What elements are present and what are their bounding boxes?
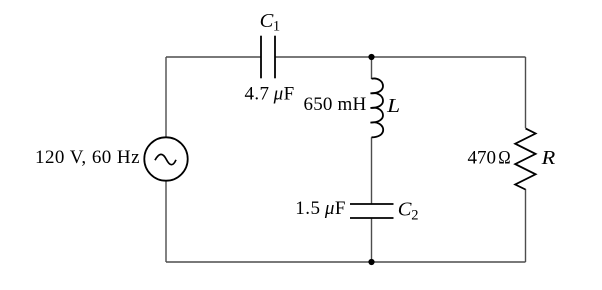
svg-text:Ω: Ω bbox=[498, 148, 510, 169]
svg-text:1.5 μF: 1.5 μF bbox=[295, 198, 346, 219]
svg-text:470: 470 bbox=[468, 148, 497, 169]
svg-text:C: C bbox=[398, 199, 412, 221]
svg-text:120 V, 60 Hz: 120 V, 60 Hz bbox=[35, 147, 140, 168]
svg-text:1: 1 bbox=[273, 19, 280, 35]
svg-text:L: L bbox=[386, 95, 400, 117]
svg-text:2: 2 bbox=[411, 208, 418, 224]
svg-text:R: R bbox=[540, 147, 555, 169]
svg-text:4.7 μF: 4.7 μF bbox=[245, 84, 295, 105]
svg-text:650 mH: 650 mH bbox=[304, 94, 367, 115]
svg-text:C: C bbox=[260, 10, 274, 32]
